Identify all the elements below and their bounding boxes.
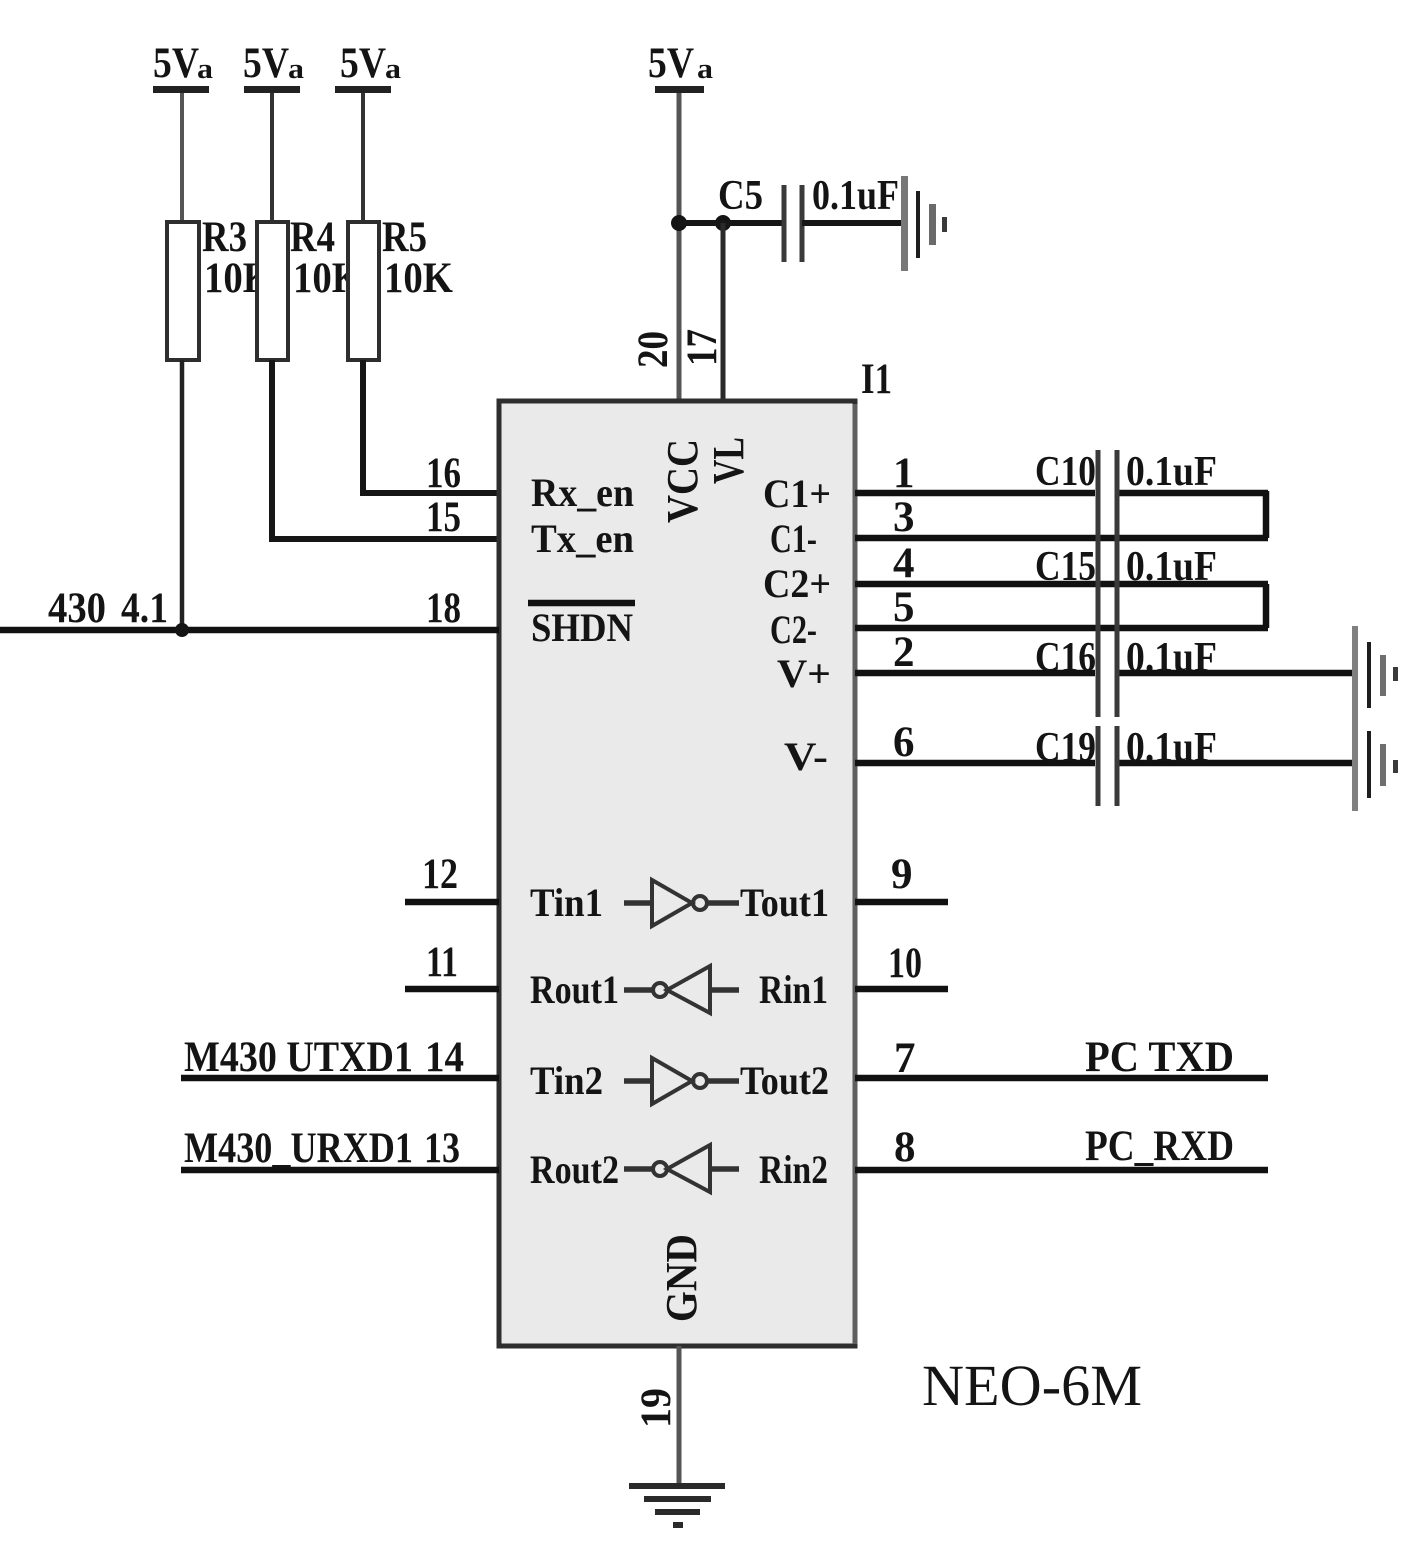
svg-text:M430 UTXD1: M430 UTXD1 xyxy=(184,1034,413,1081)
power 5Va P4 xyxy=(648,40,714,93)
svg-text:R5: R5 xyxy=(382,214,427,261)
wire pin12 Tin1 xyxy=(405,899,499,906)
ground (right, for V-) xyxy=(1352,718,1398,811)
node junction R3/SHDN xyxy=(175,623,189,637)
wire 5Va P3 to R5 xyxy=(361,93,365,222)
wire pin5 C2- xyxy=(855,625,1268,632)
node junction pin17 branch xyxy=(715,215,731,231)
svg-text:6: 6 xyxy=(893,719,915,766)
svg-text:Rout1: Rout1 xyxy=(530,967,619,1012)
wire C5 to ground xyxy=(802,220,903,226)
svg-text:C10: C10 xyxy=(1035,449,1096,495)
svg-text:Tx_en: Tx_en xyxy=(531,516,634,561)
svg-text:V+: V+ xyxy=(777,651,831,696)
svg-text:5V: 5V xyxy=(340,40,386,87)
ground (bottom) xyxy=(629,1483,725,1528)
svg-text:R3: R3 xyxy=(202,214,247,261)
svg-text:18: 18 xyxy=(426,585,461,632)
buffer T1 (Tin1 to Tout1) xyxy=(530,880,829,926)
wire pin13 Rout2 (M430_URXD1) xyxy=(181,1167,499,1174)
wire pin19 GND xyxy=(677,1346,682,1483)
svg-text:5: 5 xyxy=(893,584,915,631)
capacitor C5 xyxy=(718,173,899,262)
buffer T2 (Tin2 to Tout2) xyxy=(530,1058,829,1104)
svg-text:C15: C15 xyxy=(1035,544,1096,590)
wire pin4 C2+ xyxy=(855,581,1268,588)
wire pin6 V- xyxy=(855,760,1095,767)
svg-text:M430_URXD1: M430_URXD1 xyxy=(184,1125,413,1172)
svg-text:4.1: 4.1 xyxy=(121,585,168,632)
svg-text:VCC: VCC xyxy=(658,439,707,523)
svg-text:0.1uF: 0.1uF xyxy=(812,173,899,219)
svg-text:0.1uF: 0.1uF xyxy=(1126,725,1217,771)
svg-text:Tout1: Tout1 xyxy=(740,880,829,925)
svg-text:9: 9 xyxy=(891,851,913,898)
svg-text:Rin2: Rin2 xyxy=(759,1147,828,1192)
wire join C15 xyxy=(1263,584,1270,628)
capacitor plate column lower (C19) xyxy=(1098,726,1117,806)
svg-text:5V: 5V xyxy=(648,40,694,87)
svg-text:8: 8 xyxy=(894,1124,916,1171)
svg-text:17: 17 xyxy=(679,329,726,366)
svg-text:Rin1: Rin1 xyxy=(759,967,828,1012)
svg-text:5V: 5V xyxy=(153,40,199,87)
svg-text:V-: V- xyxy=(784,734,828,779)
svg-text:7: 7 xyxy=(894,1035,916,1082)
resistor R3 xyxy=(167,214,273,360)
wire pin1 C1+ xyxy=(855,490,1095,497)
svg-text:5V: 5V xyxy=(243,40,289,87)
capacitor C19 xyxy=(1035,725,1217,771)
svg-text:2: 2 xyxy=(893,629,915,676)
svg-text:a: a xyxy=(697,53,714,85)
svg-text:13: 13 xyxy=(424,1125,460,1172)
svg-text:0.1uF: 0.1uF xyxy=(1126,449,1217,495)
wire pin3 C1- xyxy=(855,535,1268,542)
svg-text:a: a xyxy=(197,53,214,85)
svg-text:PC TXD: PC TXD xyxy=(1085,1034,1234,1081)
svg-text:C16: C16 xyxy=(1035,635,1096,681)
svg-text:NEO-6M: NEO-6M xyxy=(922,1353,1142,1418)
svg-text:PC_RXD: PC_RXD xyxy=(1085,1123,1234,1170)
svg-text:VL: VL xyxy=(704,437,753,484)
svg-text:12: 12 xyxy=(422,851,458,898)
svg-text:C19: C19 xyxy=(1035,725,1096,771)
wire R4 down xyxy=(272,360,499,539)
svg-text:C1-: C1- xyxy=(770,516,817,561)
capacitor C16 xyxy=(1035,635,1217,681)
wire pin17 VL vertical xyxy=(721,223,726,401)
wire pin14 Tin2 (M430 UTXD1) xyxy=(181,1075,499,1082)
capacitor C10 xyxy=(1035,449,1217,495)
buffer R1 (Rin1 to Rout1) xyxy=(530,966,828,1013)
svg-text:a: a xyxy=(385,53,402,85)
svg-text:15: 15 xyxy=(426,494,461,541)
svg-text:C2-: C2- xyxy=(770,607,817,652)
wire pin8 Rin2 (PC_RXD) xyxy=(855,1167,1268,1174)
svg-text:430: 430 xyxy=(48,585,106,632)
svg-text:Rx_en: Rx_en xyxy=(531,470,634,515)
power 5Va P3 xyxy=(335,40,402,93)
svg-text:0.1uF: 0.1uF xyxy=(1126,635,1217,681)
svg-text:4: 4 xyxy=(893,540,915,587)
resistor R4 xyxy=(257,214,362,360)
svg-text:SHDN: SHDN xyxy=(531,605,633,650)
wire junction to C5 xyxy=(679,220,784,226)
IC pin name SHDN with overline xyxy=(528,603,635,650)
wire 5Va P1 to R3 xyxy=(180,93,184,222)
capacitor C15 xyxy=(1035,544,1217,590)
svg-text:20: 20 xyxy=(630,331,677,368)
wire SHDN net (430 4.1) xyxy=(0,627,499,634)
svg-text:I1: I1 xyxy=(861,356,892,403)
svg-text:R4: R4 xyxy=(290,214,335,261)
svg-text:Tout2: Tout2 xyxy=(740,1058,829,1103)
op-amp/IC I1 body xyxy=(499,356,892,1346)
svg-text:3: 3 xyxy=(893,494,915,541)
svg-text:C1+: C1+ xyxy=(763,471,831,516)
wire pin10 Rin1 xyxy=(855,986,948,993)
svg-text:1: 1 xyxy=(893,450,915,497)
wire R3 to SHDN net xyxy=(180,360,185,631)
ground (top right, sideways) xyxy=(901,176,947,271)
ground (right, for V+) xyxy=(1352,626,1398,722)
buffer R2 (Rin2 to Rout2) xyxy=(530,1145,828,1192)
svg-text:14: 14 xyxy=(425,1034,464,1081)
svg-text:16: 16 xyxy=(426,450,461,497)
power 5Va P2 xyxy=(243,40,305,93)
svg-text:C5: C5 xyxy=(718,173,763,219)
wire pin7 Tout2 (PC TXD) xyxy=(855,1075,1268,1082)
wire pin9 Tout1 xyxy=(855,899,948,906)
svg-text:C2+: C2+ xyxy=(763,561,831,606)
capacitor plate column upper (C10/C15/C16) xyxy=(1098,450,1117,717)
svg-text:11: 11 xyxy=(426,939,458,986)
resistor R5 xyxy=(348,214,453,360)
svg-text:0.1uF: 0.1uF xyxy=(1126,544,1217,590)
svg-text:Rout2: Rout2 xyxy=(530,1147,619,1192)
svg-text:Tin2: Tin2 xyxy=(530,1058,603,1103)
svg-text:10: 10 xyxy=(888,940,922,987)
svg-text:10K: 10K xyxy=(384,255,453,302)
wire 5Va P2 to R4 xyxy=(270,93,274,222)
svg-text:GND: GND xyxy=(657,1234,706,1322)
wire R5 down xyxy=(363,360,499,493)
power 5Va P1 xyxy=(153,40,214,93)
wire pin11 Rout1 xyxy=(405,986,499,993)
node junction on pin20 net xyxy=(671,215,687,231)
svg-text:19: 19 xyxy=(633,1388,680,1428)
wire join C10 xyxy=(1263,491,1270,538)
svg-text:a: a xyxy=(288,53,305,85)
wire pin2 V+ xyxy=(855,670,1095,677)
wire pin20 VCC vertical xyxy=(677,93,682,401)
svg-text:Tin1: Tin1 xyxy=(530,880,603,925)
